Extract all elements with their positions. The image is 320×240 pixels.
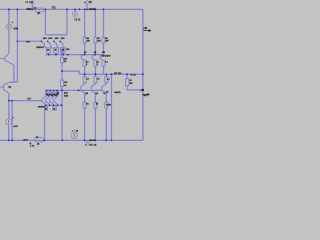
wire lower-left tail [44,110,46,140]
wire VAS node horizontal [9,100,42,102]
wire right vertical output [142,9,144,140]
node dots driver bus [48,54,50,56]
transistor Q20 lower bank A [81,84,85,93]
resistor R12 col C top [102,37,105,43]
resistor R9 bias mid [61,58,64,63]
svg-text:3W: 3W [97,40,100,42]
fuse F2 [34,138,44,142]
node dots VAS wire [41,41,43,43]
transistor Q11 upper bank B [92,55,95,61]
wire column B upper [94,9,96,54]
wire left source column upper [8,9,10,53]
transistor Q7 driver chain lower c [50,96,54,105]
svg-text:2A: 2A [37,12,40,15]
svg-text:45: 45 [53,107,55,110]
svg-text:-35.00: -35.00 [89,140,96,142]
transistor Q8 driver chain lower d [54,96,58,105]
wire top rail V+ [0,8,143,10]
node dot VAS [8,100,10,102]
wire feedback column [111,74,113,140]
node dots output bus [84,73,86,75]
wire stub input source [31,4,33,9]
transistor Q5 driver chain lower a [42,96,46,105]
svg-text:2SC: 2SC [43,38,48,40]
transistor Q12 upper bank C [100,55,103,61]
resistor R16 bias lower [61,80,64,86]
wire Q1 emitter vertical [13,65,15,82]
wire column C upper [103,9,105,54]
svg-text:2SA: 2SA [64,92,69,95]
wire lower emitter stubs [85,74,107,77]
node dot bias [61,70,63,72]
transistor Q9 upper chain c [54,41,59,48]
wire VAS upper horizontal [17,40,41,42]
svg-text:MJE: MJE [64,95,69,97]
transistor Q21 lower bank B [91,84,95,93]
transistor Q6 driver chain lower b [46,96,50,105]
svg-text:+34.97: +34.97 [88,8,96,11]
svg-text:2N5551: 2N5551 [36,47,44,49]
resistor R8 bias upper [61,48,64,53]
diode box D3 [52,92,54,96]
wire emitter stubs upper [85,66,104,74]
resistor R11 col B top [94,37,97,43]
resistor R20 emitter A lower [83,77,86,83]
resistor R21 emitter B lower [94,77,97,83]
svg-text:3W: 3W [105,40,108,42]
svg-text:NF 22k: NF 22k [114,73,122,75]
node dots left rail joints [8,9,10,11]
voltage source V5 [73,11,78,16]
node dots bottom rail [8,140,10,142]
source stub I3 [73,129,75,132]
wire lower base bus [45,89,103,91]
wire lower mid stubs [85,83,107,84]
svg-text:-34.9: -34.9 [23,139,29,142]
resistor R15 emitter C upper [102,60,105,66]
source I1 arrow [8,25,10,28]
svg-text:V2 35: V2 35 [74,20,81,22]
wire driver box stubs upper [48,53,63,54]
svg-text:2SC: 2SC [61,38,66,40]
wire input loop right [66,9,68,34]
source V5 mark [74,13,76,15]
wire bias link [62,71,79,74]
battery B2 bottom [86,142,89,145]
diode box D5 lower [45,106,48,110]
transistor Q13 upper chain d [60,41,63,46]
svg-text:B1 -35: B1 -35 [90,145,97,147]
wire input loop bottom [45,34,67,36]
transistor Q10 upper bank A [81,55,84,61]
wire link y82 [9,81,18,83]
wire battery stub bottom [87,140,89,142]
source I2 arrow [8,120,10,123]
net arrow ground bottom [30,142,32,147]
resistor R24 col B bottom [94,102,97,108]
svg-text:3W: 3W [87,40,90,42]
wire stub source V1 top [86,4,88,9]
node dots lower base bus [46,90,48,92]
svg-text:4.08: 4.08 [13,28,18,31]
diode box D1 [45,92,47,96]
wire left lower column 2 [11,101,13,141]
net arrow right upper [144,30,151,32]
resistor R22 emitter C lower [105,77,108,83]
resistor R14 emitter B upper [94,60,97,66]
wire diode stubs row A [47,90,58,92]
node dot zobel junction [142,89,144,91]
resistor R30 zobel [126,79,129,86]
driver box U3 [61,48,65,53]
current source I1 [6,24,11,29]
fuse F1 [35,8,44,12]
svg-text:C2 1u: C2 1u [25,1,32,4]
source I3 arrow [73,134,75,137]
svg-text:0.7m: 0.7m [131,75,136,77]
resistor R10 col A top [83,37,86,43]
transistor Q3 upper chain a [41,41,46,48]
wire column tails to rail [85,108,107,140]
svg-text:2N5401: 2N5401 [38,106,46,109]
wire bottom rail V- [0,139,143,141]
wire bias column x62 [61,52,63,140]
node dots top rail [45,9,47,11]
svg-text:2SC5200: 2SC5200 [101,56,111,58]
wire input loop left [44,9,46,34]
diode box D6 lower [53,106,57,110]
svg-text:2SC: 2SC [48,38,53,40]
node dots lower mid bus [45,105,47,107]
svg-text:950m: 950m [26,8,32,11]
svg-text:2W: 2W [129,83,132,85]
net arrow right lower [142,94,149,96]
svg-text:2SC: 2SC [55,38,60,40]
driver box U2 [54,48,59,53]
transistor Q2 [0,82,9,93]
input source SRC [31,1,34,4]
transistor Q4 upper chain b [48,41,53,48]
source V1 top [85,1,88,4]
resistor R25 col C bottom [105,102,108,108]
current source I2 lower [6,119,12,125]
wire lower mid bus [44,104,62,106]
resistor R13 emitter A upper [83,60,86,66]
transistor Q1 [0,54,14,65]
svg-text:4xMJL: 4xMJL [114,91,121,94]
wire second left vertical [16,9,18,82]
driver box U1 [47,48,51,53]
wire zobel branch [127,74,143,90]
resistor R23 col A bottom [83,102,86,108]
label input source dot [32,2,33,3]
wire output bus [79,73,143,75]
diode box D4 [56,92,58,96]
wire lower collector stubs [85,93,107,102]
wire left lower column [8,101,10,141]
wire driver bus upper [46,54,105,56]
current source I3 bias [71,132,77,138]
transistor Q22 lower bank C [102,84,106,93]
wire column A upper [84,9,86,54]
node dot output corner [142,73,144,75]
wire Q2 emitter vertical [8,93,10,100]
diode box D2 [49,92,51,96]
wire stub source V5 [74,9,76,11]
